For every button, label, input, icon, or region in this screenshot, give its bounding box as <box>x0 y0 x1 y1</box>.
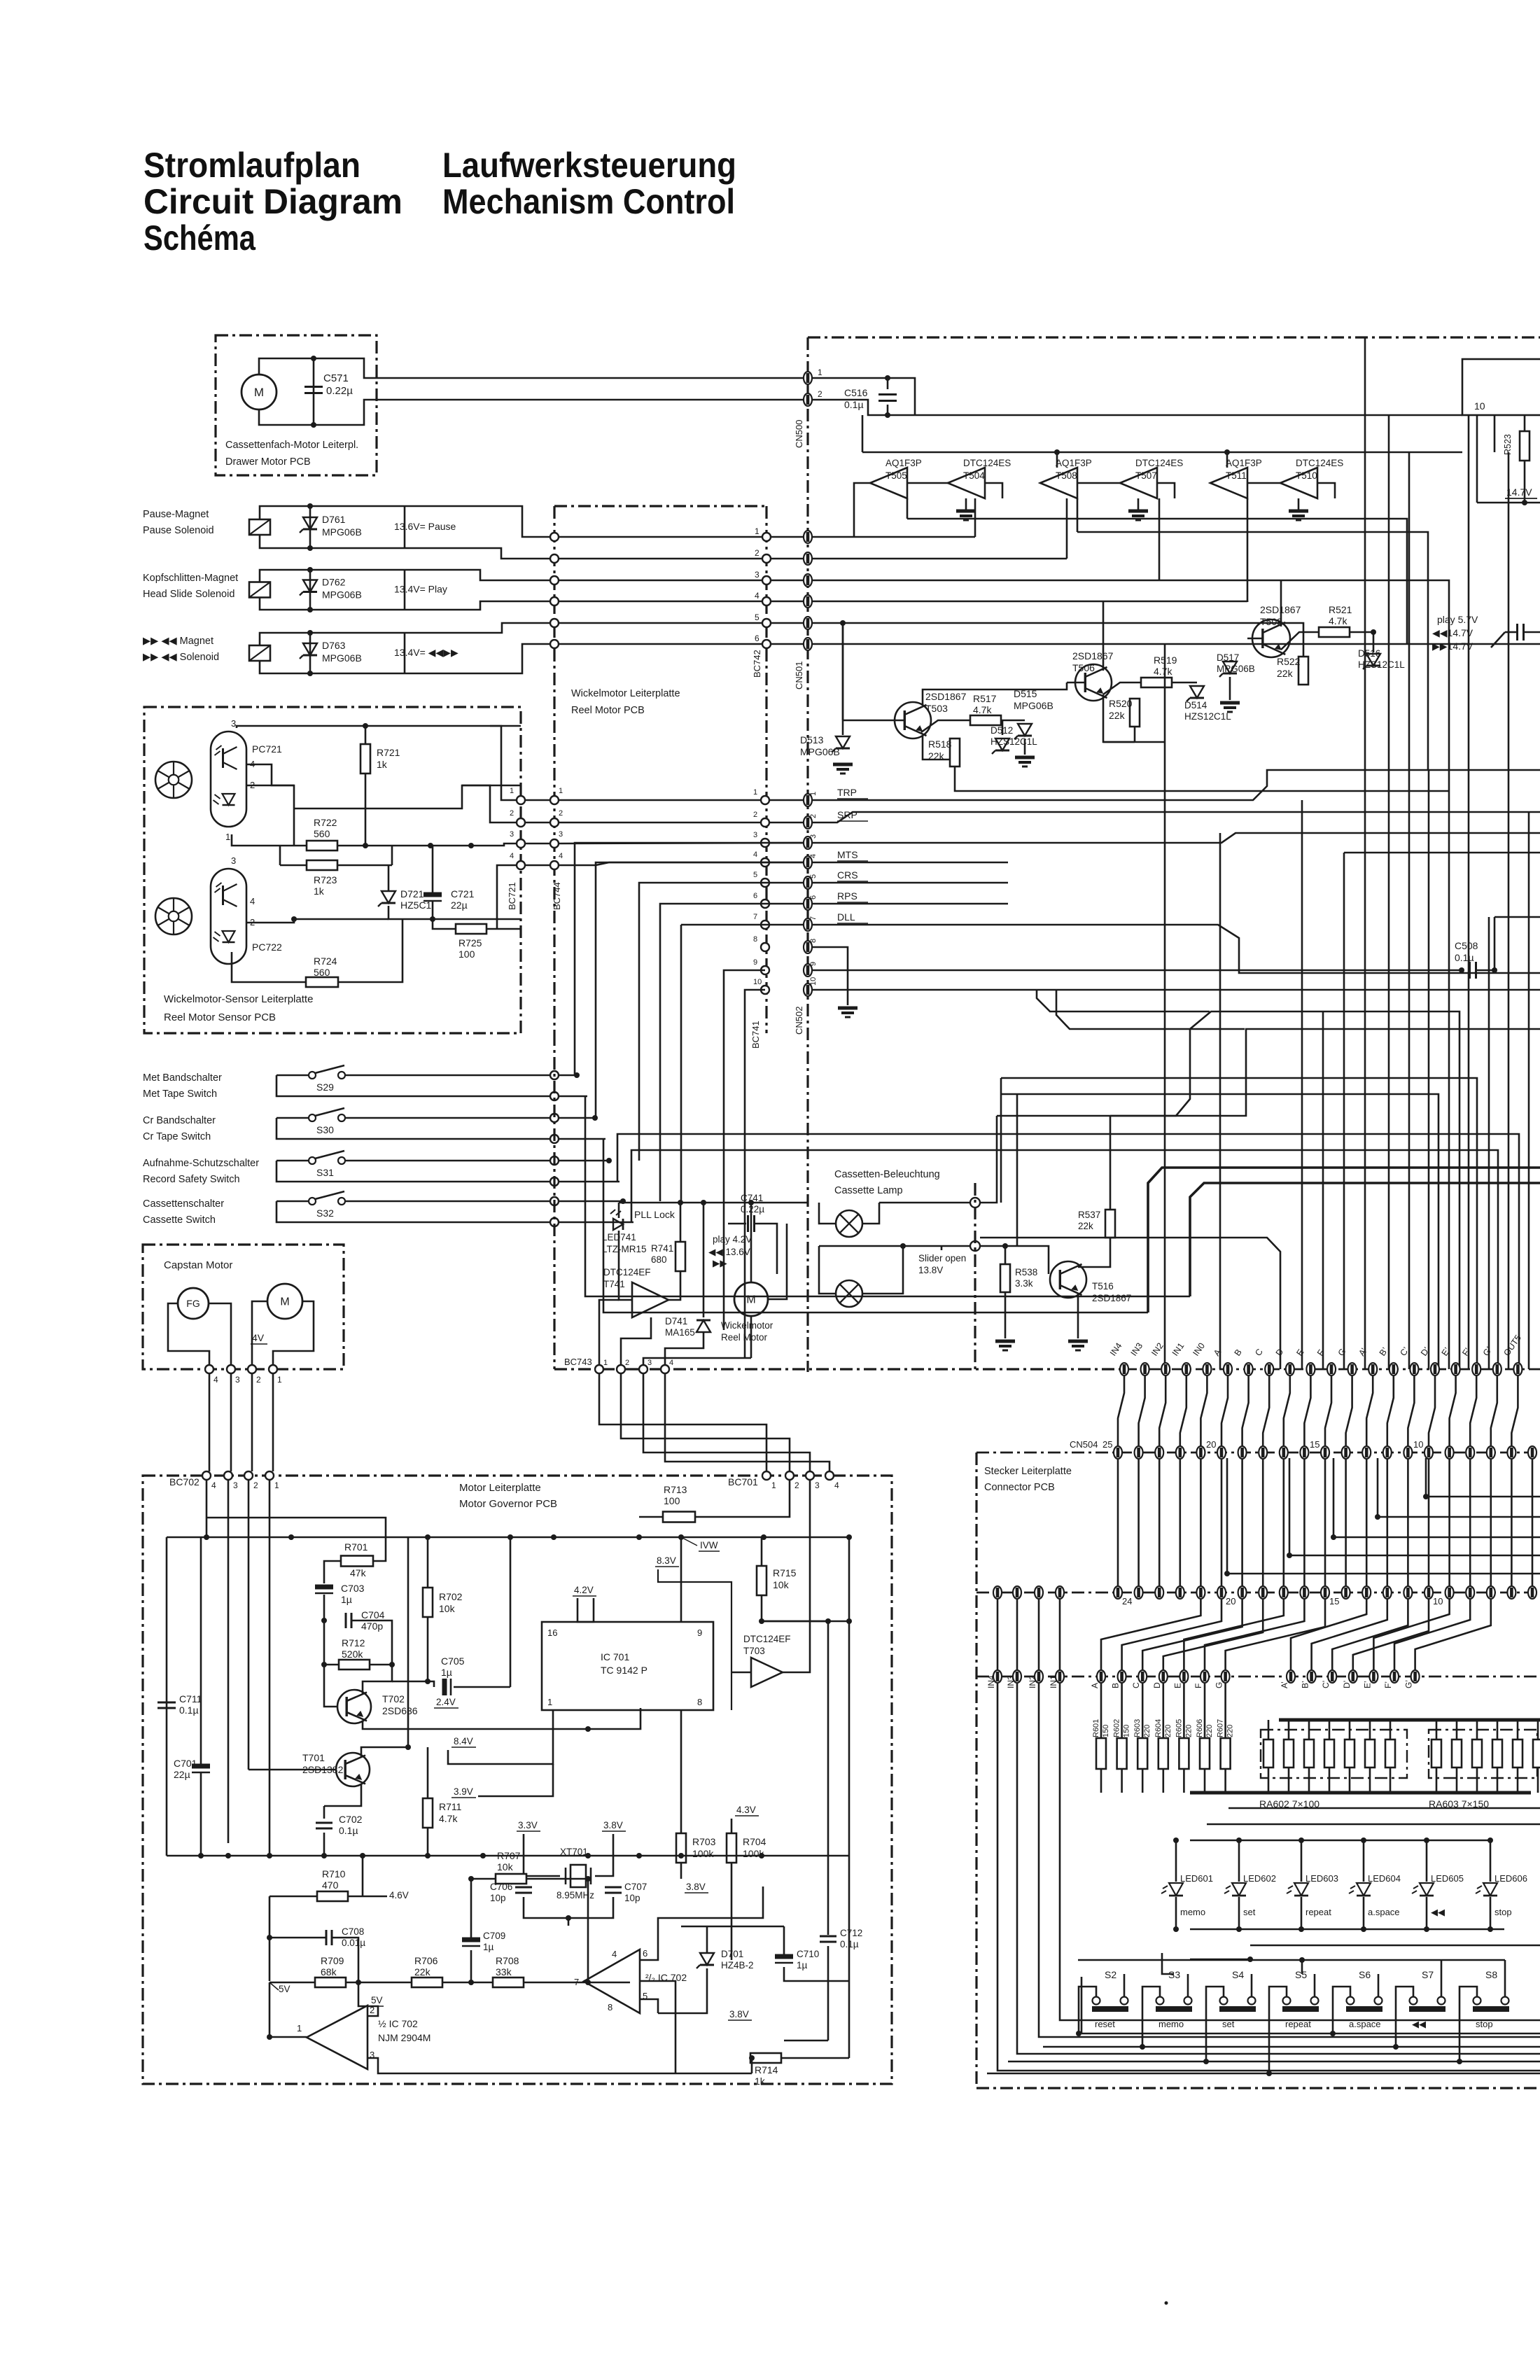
transistor T509 2SD1867 <box>1252 619 1290 657</box>
wire CN501 pin5 right <box>812 623 1303 658</box>
junction R521 right <box>1371 629 1376 635</box>
svg-text:Aufnahme-Schutzschalter: Aufnahme-Schutzschalter <box>143 1158 259 1169</box>
svg-text:20: 20 <box>1226 1596 1235 1606</box>
svg-text:DTC124ES: DTC124ES <box>1296 458 1343 468</box>
diode D762 MPG06B <box>303 580 317 592</box>
crystal XT701 <box>570 1865 586 1887</box>
connector keyboard pin Dp <box>1349 1670 1357 1683</box>
svg-text:E’: E’ <box>1362 1681 1372 1688</box>
svg-text:S29: S29 <box>316 1081 334 1093</box>
wire lamp2 wiring <box>862 1246 903 1294</box>
svg-text:1: 1 <box>603 1359 608 1367</box>
svg-text:0.1µ: 0.1µ <box>1455 952 1474 963</box>
svg-text:AQ1F3P: AQ1F3P <box>1226 458 1262 468</box>
capacitor C741 <box>747 1215 749 1232</box>
connector keyboard pin C <box>1138 1670 1147 1683</box>
wire switch return b <box>603 1139 1148 1312</box>
wire S6 left leg <box>1333 1987 1350 2033</box>
resistor RA603 element 1 <box>1431 1739 1441 1767</box>
svg-text:1µ: 1µ <box>441 1667 452 1678</box>
svg-text:C708: C708 <box>342 1926 364 1937</box>
wire T509 base <box>1247 638 1263 640</box>
opto sensor PC721 <box>211 731 246 827</box>
wire CN504 through 9 <box>1303 1459 1305 1586</box>
svg-text:24: 24 <box>1122 1596 1132 1606</box>
wire pin-T516 base <box>1005 1246 1049 1274</box>
resistor R721 <box>360 744 370 773</box>
wire xtal row b <box>595 1834 613 1876</box>
wire R521 right <box>1350 631 1373 633</box>
wire S32 stub b <box>559 1221 633 1224</box>
wire S31 loop <box>276 1161 554 1182</box>
wire 8.4V feed <box>448 1710 553 1764</box>
bus nest h11 <box>1344 852 1540 854</box>
wire BC742-CN501 5 <box>771 622 804 624</box>
resistor RA603 element 5 <box>1513 1739 1522 1767</box>
connector CN504 pin 18 <box>1259 1446 1267 1459</box>
wire governor bottom bus <box>167 1855 849 1857</box>
wire T703 out <box>783 1480 810 1672</box>
svg-text:HZ4B-2: HZ4B-2 <box>721 1960 754 1970</box>
svg-text:M: M <box>280 1296 289 1308</box>
connector BC721 pin 3 <box>517 839 525 848</box>
wire T701 base <box>248 1769 336 1771</box>
wire RA602 el 7 bottom <box>1389 1767 1392 1793</box>
wire BC744 pin3 right <box>559 843 804 843</box>
svg-text:22k: 22k <box>1078 1221 1093 1231</box>
wire solenoid loop D763 <box>260 623 766 645</box>
svg-text:R721: R721 <box>377 747 400 758</box>
wire T701 emitter <box>324 1784 361 1806</box>
svg-text:520k: 520k <box>342 1648 363 1660</box>
connector BC744 pin 3 <box>550 839 559 848</box>
solenoid Pause-Magnet <box>249 519 270 535</box>
resistor R538 <box>1000 1264 1010 1292</box>
wire R711 top <box>427 1747 429 1798</box>
svg-text:▶▶ ◀◀ Magnet: ▶▶ ◀◀ Magnet <box>143 636 213 647</box>
svg-text:CN501: CN501 <box>794 661 804 689</box>
junction amp tap T511 <box>1224 449 1230 455</box>
junction S32 <box>620 1198 626 1204</box>
wire S29 loop <box>276 1075 554 1096</box>
svg-text:2: 2 <box>253 1480 258 1490</box>
wire 5V mid underline <box>370 2005 384 2007</box>
svg-text:D761: D761 <box>322 514 346 525</box>
svg-text:R537: R537 <box>1078 1210 1100 1220</box>
connector keyboard pin A <box>1097 1670 1105 1683</box>
wire T503 bus <box>842 623 844 720</box>
wire BC743 pin1 up <box>599 1300 619 1365</box>
svg-text:◀◀: ◀◀ <box>1431 1907 1445 1917</box>
pin lamp box a <box>970 1198 980 1207</box>
connector keyboard pin B <box>1118 1670 1126 1683</box>
wire C721 bottom <box>432 901 434 919</box>
connector BC742 pin 4 <box>762 597 771 605</box>
junction strip 2 <box>1331 1534 1336 1540</box>
svg-text:4: 4 <box>755 591 759 601</box>
wire bus y593 to IC box <box>812 400 1462 415</box>
connector main-board pin IN3 <box>1141 1363 1149 1375</box>
resistor R715 <box>757 1566 766 1595</box>
svg-text:Wickelmotor: Wickelmotor <box>721 1320 773 1331</box>
LED LED601 <box>1169 1883 1183 1896</box>
wire RA603 el 2 top <box>1456 1720 1458 1739</box>
connector CN501 pin 1 <box>804 531 812 543</box>
svg-text:10k: 10k <box>497 1861 514 1872</box>
connector main-board pin IN4 <box>1120 1363 1128 1375</box>
resistor R712 <box>339 1660 370 1669</box>
svg-text:7: 7 <box>809 916 818 920</box>
wire CN502 pin3 wire <box>812 833 1540 843</box>
svg-text:E: E <box>1294 1347 1305 1358</box>
wire LED601 cathode <box>1175 1897 1177 1929</box>
svg-text:13.4V= ◀◀▶▶: 13.4V= ◀◀▶▶ <box>394 647 458 658</box>
wire R709 left <box>269 1982 315 1984</box>
reel motor PCB top border <box>554 505 766 507</box>
wire LED603 anode <box>1301 1840 1303 1882</box>
wire C705 to IC <box>510 1537 512 1687</box>
svg-text:100: 100 <box>664 1495 680 1506</box>
resistor R723 <box>307 860 337 870</box>
junction LED604 <box>1361 1837 1366 1843</box>
ground D517 <box>1220 701 1240 705</box>
svg-text:MA165: MA165 <box>665 1327 695 1338</box>
wire CN502 pin8 stub <box>812 947 848 1005</box>
capacitor C704 <box>345 1613 347 1628</box>
wire R517 to D515 <box>1001 720 1025 722</box>
opto sensor PC722 <box>211 869 246 964</box>
svg-text:R538: R538 <box>1015 1267 1037 1277</box>
junction governor bus <box>678 1534 684 1540</box>
reel motor PCB left border <box>553 506 555 1033</box>
junction governor bus <box>761 1534 766 1540</box>
connector CN504 pin 12 <box>1383 1446 1392 1459</box>
connector PCB pin row2 23 <box>1155 1586 1163 1599</box>
connector PCB row2 extra pin IN4 <box>993 1586 1002 1599</box>
wire DLL underline <box>837 923 868 924</box>
svg-text:D741: D741 <box>665 1316 687 1326</box>
svg-text:8: 8 <box>809 939 818 943</box>
wire RA602 el 3 top <box>1308 1720 1310 1739</box>
wire R725 right <box>486 928 521 930</box>
svg-text:1: 1 <box>818 367 822 377</box>
wire 3.8V lower underline <box>685 1892 708 1893</box>
svg-text:10: 10 <box>1474 400 1485 412</box>
junction R722 a <box>363 843 368 848</box>
wire BC742-CN501 4 <box>771 601 804 603</box>
svg-text:R713: R713 <box>664 1484 687 1495</box>
wire CN504 through 13 <box>1387 1459 1389 1586</box>
wire S31 top right <box>345 1160 554 1162</box>
wire CN504 link 6 <box>1242 1376 1249 1446</box>
connector keyboard pin Cp <box>1328 1670 1336 1683</box>
connector keyboard pin Ap <box>1287 1670 1295 1683</box>
connector CN504 pin 10 <box>1424 1446 1433 1459</box>
bus nest v4 <box>1322 1011 1324 1369</box>
svg-text:R606: R606 <box>1196 1719 1204 1737</box>
svg-text:220: 220 <box>1226 1725 1235 1737</box>
connector BC741 pin 4 <box>761 858 769 867</box>
wire C516 bottom lead <box>887 405 889 415</box>
wire BC742-CN501 2 <box>771 558 804 560</box>
junction bottom bus <box>636 1853 642 1858</box>
svg-text:14.7V: 14.7V <box>1506 486 1532 498</box>
bus nest v6 <box>1388 415 1390 1369</box>
svg-text:4: 4 <box>834 1480 839 1490</box>
svg-text:R518: R518 <box>928 738 952 750</box>
wire R715 node right <box>762 1620 849 1623</box>
wire row2 to kb IN3 <box>1016 1599 1018 1670</box>
wire DLL <box>812 925 1540 973</box>
capacitor C702 <box>316 1822 332 1824</box>
resistor RA602 element 3 <box>1304 1739 1314 1767</box>
wire D513 feed <box>842 623 844 735</box>
svg-text:1k: 1k <box>314 885 325 897</box>
connector CN504 pin 11 <box>1403 1446 1412 1459</box>
junction bottom bus <box>759 1853 764 1858</box>
bus nest v14 <box>1164 644 1166 1369</box>
svg-text:T504: T504 <box>963 470 985 481</box>
wire MTS jog <box>596 862 804 865</box>
wire strip tap 1 <box>1378 1458 1540 1517</box>
svg-text:4: 4 <box>250 896 255 906</box>
wire S30 stub b <box>559 1138 605 1140</box>
svg-text:220: 220 <box>1164 1725 1172 1737</box>
svg-text:BC701: BC701 <box>728 1476 758 1487</box>
wire pc721 k bus <box>294 785 521 808</box>
svg-text:C702: C702 <box>339 1814 363 1825</box>
pin capstan box 1 <box>269 1365 277 1373</box>
wire drawer motor loop <box>259 358 314 374</box>
wire CN504 through 14 <box>1407 1459 1409 1586</box>
ground under T507 <box>1128 510 1148 513</box>
wire CN504 link 15 <box>1429 1376 1435 1446</box>
junction LED601 <box>1173 1837 1179 1843</box>
wire PC721 pin2 bus <box>246 785 294 846</box>
resistor R702 <box>423 1588 433 1617</box>
svg-text:8: 8 <box>753 935 757 944</box>
wire S31 top <box>276 1160 309 1162</box>
transistor T702 2SD636 <box>337 1690 371 1723</box>
wire IN1 down bus <box>1060 1683 1540 2020</box>
svg-text:AQ1F3P: AQ1F3P <box>885 458 922 468</box>
wire BC721-BC744 2 <box>525 822 550 824</box>
wire T703 in <box>731 1672 751 1674</box>
svg-text:15: 15 <box>1329 1596 1339 1606</box>
ground R538 <box>995 1340 1015 1343</box>
svg-text:1: 1 <box>277 1375 282 1385</box>
wire R722 right <box>337 843 517 846</box>
wire BC742-CN501 1 <box>771 536 804 538</box>
wire S5 left leg <box>1269 1987 1287 2073</box>
junction T702 out <box>585 1726 591 1732</box>
junction bottom bus <box>480 1853 486 1858</box>
wire RA602 el 6 top <box>1369 1720 1371 1739</box>
junction C508 left <box>1459 967 1464 973</box>
svg-text:IN3: IN3 <box>1006 1675 1016 1688</box>
svg-text:1: 1 <box>755 526 759 536</box>
switch S6 a.space <box>1347 1997 1354 2005</box>
svg-text:Pause Solenoid: Pause Solenoid <box>143 525 214 536</box>
svg-text:20: 20 <box>1206 1439 1216 1450</box>
wire 3.9V wire <box>478 1764 553 1796</box>
wire row2 to kb IN1 <box>1059 1599 1061 1670</box>
junction bottom bus <box>225 1853 231 1858</box>
svg-text:Motor Governor PCB: Motor Governor PCB <box>459 1498 557 1510</box>
svg-text:LED603: LED603 <box>1305 1873 1338 1884</box>
resistor RA603 element 6 <box>1533 1739 1540 1767</box>
wire T505 input down <box>906 498 909 519</box>
wire solenoid loop D761 <box>260 506 766 537</box>
connector PCB pin row2 8 <box>1466 1586 1474 1599</box>
wire C571 vertical <box>313 358 315 425</box>
wire RA602 el 2 top <box>1288 1720 1290 1739</box>
wire R537 riser <box>1109 1116 1112 1183</box>
svg-text:3: 3 <box>235 1375 240 1385</box>
bus nest v7 <box>1408 452 1410 1369</box>
op-amp driver T508 <box>1040 468 1077 498</box>
svg-text:0.1µ: 0.1µ <box>844 399 864 410</box>
svg-text:1µ: 1µ <box>341 1594 352 1605</box>
connector BC721 pin 4 <box>517 861 525 869</box>
svg-text:Motor Leiterplatte: Motor Leiterplatte <box>459 1482 541 1494</box>
svg-text:9: 9 <box>753 958 757 967</box>
wire RA602 el 4 top <box>1329 1720 1331 1739</box>
wire lamp1 left <box>819 1203 836 1224</box>
junction S2 leg <box>1076 2031 1081 2036</box>
wire S30 loop <box>276 1118 554 1139</box>
wire xtal gnd drop <box>568 1918 570 1926</box>
wire T701 col bus <box>407 1537 409 1747</box>
svg-text:Connector PCB: Connector PCB <box>984 1482 1055 1493</box>
wire RA603 el 4 bottom <box>1497 1767 1499 1793</box>
svg-text:IN2: IN2 <box>1149 1341 1165 1358</box>
connector BC701 pin 1 <box>762 1471 771 1480</box>
zener D701 HZ4B-2 <box>700 1953 714 1965</box>
svg-text:IN4: IN4 <box>1108 1341 1124 1358</box>
wire RA603 el 5 bottom <box>1517 1767 1519 1793</box>
connector keyboard pin IN2 <box>1035 1670 1043 1683</box>
wire 4.2V underline <box>573 1595 596 1597</box>
wire R519 right <box>1172 682 1197 684</box>
LED LED741 PLL lock <box>613 1219 623 1230</box>
connector keyboard pin D <box>1159 1670 1168 1683</box>
svg-text:T505: T505 <box>885 470 907 481</box>
diode D761 MPG06B <box>303 517 317 529</box>
wire RA602 el 6 bottom <box>1369 1767 1371 1793</box>
wire row2 to kb IN2 <box>1038 1599 1040 1670</box>
wire R520 bottom <box>1134 727 1136 742</box>
transistor T701 2SD1382 <box>336 1753 370 1786</box>
wire BC743-3 to BC701 <box>643 1373 810 1471</box>
wire T511 input down <box>1247 498 1249 602</box>
svg-text:S5: S5 <box>1295 1969 1307 1980</box>
connector BC744 pin 4 <box>550 861 559 869</box>
wire C708 left <box>269 1937 326 1939</box>
connector main-board pin E <box>1306 1363 1315 1375</box>
wire switch S2 drop <box>1081 1977 1083 2033</box>
wire CN504 through 17 <box>1469 1459 1471 1586</box>
wire switch feed bus <box>1078 1959 1505 1961</box>
wire R538 bottom gnd <box>1004 1292 1007 1338</box>
connector main-board pin IN1 <box>1182 1363 1191 1375</box>
wire 84 node drop <box>587 1879 589 1982</box>
IC701 TC9142P <box>542 1622 713 1710</box>
resistor R709 <box>315 1977 346 1987</box>
wire CN504 through 5 <box>1221 1459 1223 1586</box>
wire T504 ground lead <box>965 498 967 511</box>
wire solenoid loop bottom D761 <box>260 535 766 559</box>
wire 8.4V line <box>588 1708 640 1729</box>
svg-text:Reel Motor PCB: Reel Motor PCB <box>571 705 645 716</box>
wire R537 bottom to T516 <box>1078 1238 1110 1267</box>
wire CN504 link 17 <box>1470 1376 1476 1446</box>
wire strip tap 4 <box>1227 1458 1540 1574</box>
connector CN504 pin 17 <box>1280 1446 1288 1459</box>
pin board edge S32 b <box>550 1218 559 1226</box>
resistor R602 <box>1117 1738 1127 1769</box>
svg-text:C721: C721 <box>451 888 475 899</box>
svg-text:R715: R715 <box>773 1567 797 1578</box>
wire BC744 pin1 right <box>559 799 804 801</box>
wire MTS underline <box>837 860 868 862</box>
wire R606 top <box>1204 1683 1206 1738</box>
wire R607 bottom <box>1224 1769 1226 1793</box>
svg-text:C701: C701 <box>174 1758 197 1769</box>
wire S29 stub b <box>559 1095 587 1098</box>
op-amp driver T507 <box>1120 468 1157 498</box>
svg-text:CN502: CN502 <box>794 1007 804 1035</box>
svg-text:C709: C709 <box>483 1931 505 1941</box>
connector PCB pin row2 18 <box>1259 1586 1267 1599</box>
bus nest v15 <box>1219 833 1221 1369</box>
wire C703 down <box>323 1595 325 1620</box>
wire LED606 cathode <box>1490 1897 1492 1929</box>
junction C571 bottom <box>311 422 316 428</box>
connector CN502 pin 6 <box>804 897 812 910</box>
svg-text:6: 6 <box>809 895 818 899</box>
wire CN504 through 12 <box>1366 1459 1368 1586</box>
svg-text:8.3V: 8.3V <box>657 1555 676 1566</box>
wire CN504 through 15 <box>1428 1459 1430 1586</box>
switch S8 stop <box>1473 1997 1481 2005</box>
svg-text:play 5.7V: play 5.7V <box>1437 614 1478 625</box>
wire CN504 link 9 <box>1304 1376 1310 1446</box>
wire R607 top <box>1224 1683 1226 1738</box>
wire CN504 through 10 <box>1324 1459 1326 1586</box>
svg-text:22µ: 22µ <box>174 1769 190 1780</box>
junction bottom bus <box>678 1853 684 1858</box>
wire S30 top right <box>345 1117 554 1119</box>
connector CN504 pin 25 <box>1114 1446 1122 1459</box>
resistor array RA603 outline <box>1429 1730 1537 1778</box>
wire D721 top <box>388 865 390 890</box>
wire LED604 cathode <box>1363 1897 1365 1929</box>
wire S31 stub b <box>559 1181 619 1183</box>
svg-text:25: 25 <box>1102 1439 1112 1450</box>
wire pin10 branch <box>745 990 765 1358</box>
svg-text:FG: FG <box>186 1298 199 1309</box>
bus nest h1 <box>840 1134 1519 1369</box>
wire R601 top <box>1100 1683 1102 1738</box>
svg-text:NJM 2904M: NJM 2904M <box>378 2032 430 2043</box>
svg-text:2: 2 <box>809 814 818 818</box>
wire pin3 drop <box>227 1480 230 1843</box>
diode D517 MPG06B <box>1223 661 1237 673</box>
svg-text:R702: R702 <box>439 1591 463 1602</box>
junction LED606 <box>1487 1837 1493 1843</box>
svg-text:RPS: RPS <box>837 890 857 902</box>
